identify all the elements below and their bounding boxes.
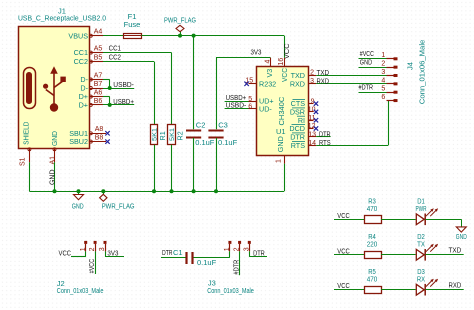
svg-text:RTS: RTS bbox=[291, 141, 305, 150]
svg-text:V3: V3 bbox=[265, 69, 274, 78]
wire A1 GND down to rail bbox=[54, 162, 56, 191]
capacitor C2 bbox=[186, 120, 215, 147]
svg-text:USBD+: USBD+ bbox=[113, 97, 134, 106]
wire fuse to U1 VCC pin16 bbox=[142, 36, 285, 58]
connector J4 value Conn_01x06_Male bbox=[418, 40, 427, 105]
label USBD+ bbox=[113, 97, 134, 106]
U1 pin 16 VCC bbox=[278, 58, 289, 82]
wire TXD to J4 pin 3 bbox=[316, 75, 386, 77]
svg-text:J4: J4 bbox=[406, 62, 415, 70]
J2 pin 1 bbox=[80, 241, 87, 252]
svg-text:Conn_01x03_Male: Conn_01x03_Male bbox=[57, 286, 104, 295]
J1 pin B8 SBU2 bbox=[69, 135, 106, 147]
svg-text:B7: B7 bbox=[94, 81, 103, 88]
wire D1 to GND symbol bbox=[426, 219, 462, 221]
label VCC row R5 bbox=[337, 281, 350, 290]
wire #VCC to J4 pin 1 bbox=[359, 58, 387, 60]
svg-text:5: 5 bbox=[248, 96, 252, 103]
junction C3 on rail bbox=[214, 189, 218, 193]
wire RTS to J4 pin 6 bbox=[316, 101, 388, 146]
wire 3V3 net to C3 and U1 V3 pin4 bbox=[216, 58, 271, 130]
connector J2 reference bbox=[57, 279, 65, 288]
USB icon inside J1 bbox=[24, 66, 66, 111]
J1 pin B5 CC2 bbox=[74, 55, 103, 67]
junction at C2 branch bbox=[192, 34, 196, 38]
label USBD- bbox=[113, 80, 134, 89]
wire #DTR to J4 pin 5 bbox=[359, 92, 387, 94]
fuse F1 value bbox=[124, 20, 141, 29]
svg-text:A8: A8 bbox=[95, 126, 104, 133]
J4 pin 6 bbox=[381, 94, 397, 102]
svg-text:0.1uF: 0.1uF bbox=[197, 258, 217, 267]
IC U1 body bbox=[257, 67, 309, 156]
U1 pin 13 DTR bbox=[290, 131, 316, 141]
resistor R2 bbox=[168, 125, 185, 145]
svg-text:B8: B8 bbox=[95, 135, 104, 142]
svg-text:R1: R1 bbox=[158, 131, 167, 140]
svg-text:A6: A6 bbox=[94, 90, 103, 97]
svg-text:CC2: CC2 bbox=[109, 53, 121, 62]
resistor R1 bbox=[151, 125, 168, 145]
svg-text:3: 3 bbox=[243, 247, 250, 251]
svg-text:16: 16 bbox=[278, 58, 285, 66]
svg-text:RX: RX bbox=[417, 275, 425, 284]
connector J1 body bbox=[19, 27, 90, 149]
label VCC on pin16 wire bbox=[282, 43, 291, 59]
no-connect on pin 10 bbox=[314, 110, 318, 114]
svg-text:5: 5 bbox=[381, 86, 385, 93]
wire VCC to R4 bbox=[334, 254, 364, 256]
svg-text:CC1: CC1 bbox=[109, 44, 121, 53]
no-connect on SBU1 bbox=[105, 131, 109, 135]
svg-text:C3: C3 bbox=[218, 120, 228, 129]
svg-text:RXD: RXD bbox=[449, 281, 462, 290]
wire J3 pin1 to C1 bbox=[194, 251, 230, 257]
wire USBD- to pin 6 bbox=[225, 108, 249, 110]
no-connect on SBU2 bbox=[105, 139, 109, 143]
svg-text:DTR: DTR bbox=[253, 248, 265, 257]
ground symbol at D1 bbox=[456, 219, 467, 241]
wire RXD to J4 pin 4 bbox=[316, 83, 386, 85]
svg-text:UD-: UD- bbox=[259, 104, 272, 113]
svg-text:14: 14 bbox=[308, 140, 316, 147]
svg-text:2: 2 bbox=[234, 247, 241, 251]
svg-text:RXD: RXD bbox=[317, 76, 330, 85]
label 3V3 at J2 bbox=[107, 248, 118, 257]
svg-text:1: 1 bbox=[224, 247, 231, 251]
wire VBUS A4 to fuse bbox=[103, 35, 123, 37]
svg-text:3: 3 bbox=[99, 247, 106, 251]
svg-text:CC2: CC2 bbox=[74, 57, 88, 66]
ground symbol GND bbox=[72, 191, 84, 210]
svg-text:Conn_01x03_Male: Conn_01x03_Male bbox=[207, 286, 254, 295]
wire GND rail bbox=[29, 191, 284, 193]
svg-text:2: 2 bbox=[89, 247, 96, 251]
svg-text:470: 470 bbox=[367, 204, 378, 213]
svg-text:A5: A5 bbox=[94, 46, 103, 53]
connector J1 value USB_C_Receptacle_USB2.0 bbox=[18, 14, 106, 23]
wire VCC to R5 bbox=[334, 289, 364, 291]
wire R4 to D2 bbox=[381, 254, 416, 256]
U1 pin 6 UD- bbox=[248, 103, 272, 113]
svg-text:220: 220 bbox=[367, 240, 378, 249]
J1 pin B7 D- bbox=[80, 81, 103, 93]
svg-text:A1: A1 bbox=[49, 156, 56, 165]
no-connect on pin 9 bbox=[314, 101, 318, 105]
LED D1 bbox=[416, 197, 439, 226]
svg-text:RTS: RTS bbox=[319, 138, 331, 147]
svg-text:VCC: VCC bbox=[337, 211, 350, 220]
wire C3 to GND rail bbox=[216, 138, 218, 191]
svg-text:A7: A7 bbox=[94, 72, 103, 79]
wire D- pair join bbox=[103, 80, 134, 89]
J1 pin S1 SHIELD bbox=[19, 122, 31, 166]
label USBD- at U1 bbox=[226, 100, 247, 109]
svg-text:USBD-: USBD- bbox=[113, 80, 134, 89]
U1 pin 4 V3 bbox=[264, 58, 274, 78]
svg-text:3V3: 3V3 bbox=[251, 48, 262, 57]
svg-text:470: 470 bbox=[367, 275, 378, 284]
svg-text:3V3: 3V3 bbox=[107, 248, 118, 257]
fuse F1 body bbox=[123, 34, 142, 39]
J3 pin 2 bbox=[234, 241, 241, 251]
svg-text:SHIELD: SHIELD bbox=[22, 122, 31, 145]
resistor R3 bbox=[365, 197, 382, 224]
U1 pin 14 RTS bbox=[291, 140, 316, 150]
J1 pin A5 CC1 bbox=[74, 46, 103, 58]
label 3V3 bbox=[251, 48, 262, 57]
U1 pin 9 CTS bbox=[291, 98, 315, 108]
label #VCC bbox=[360, 49, 375, 58]
wire R5 to D3 bbox=[381, 289, 416, 291]
wire D2 to TXD label bbox=[426, 254, 464, 256]
svg-text:B5: B5 bbox=[94, 55, 103, 62]
svg-text:GND: GND bbox=[276, 136, 285, 152]
junction A1 on rail bbox=[53, 189, 57, 193]
label USBD+ at U1 bbox=[226, 93, 247, 102]
junction R2 on rail bbox=[170, 189, 174, 193]
svg-text:B6: B6 bbox=[94, 98, 103, 105]
U1 pin 3 RXD bbox=[290, 78, 316, 89]
svg-text:0.1uF: 0.1uF bbox=[218, 138, 238, 147]
label TXD right bbox=[449, 246, 462, 255]
wire J3 pin2 down bbox=[239, 251, 241, 275]
J4 pin 1 bbox=[381, 52, 397, 60]
svg-text:DTR: DTR bbox=[162, 248, 173, 257]
svg-text:Conn_01x06_Male: Conn_01x06_Male bbox=[418, 40, 427, 105]
U1 pin 2 TXD bbox=[291, 70, 317, 81]
wire SHIELD to GND rail bbox=[29, 162, 31, 191]
connector J3 value Conn_01x03_Male bbox=[207, 286, 254, 295]
wire VCC to R3 bbox=[334, 219, 364, 221]
svg-text:USBD-: USBD- bbox=[226, 100, 247, 109]
svg-text:GND: GND bbox=[50, 131, 59, 146]
U1 pin 12 DCD bbox=[289, 123, 315, 133]
power flag PWR_FLAG top bbox=[164, 15, 196, 35]
junction C2 on rail bbox=[192, 189, 196, 193]
wire C1 left to DTR label bbox=[161, 257, 186, 259]
svg-text:Fuse: Fuse bbox=[124, 20, 141, 29]
svg-text:2: 2 bbox=[310, 70, 314, 77]
J4 pin 5 bbox=[381, 86, 397, 94]
J1 pin A6 D+ bbox=[79, 90, 103, 102]
J4 pin 4 bbox=[381, 77, 397, 85]
svg-text:A4: A4 bbox=[94, 29, 103, 36]
wire USBD+ to pin 5 bbox=[225, 101, 249, 103]
svg-text:3: 3 bbox=[310, 78, 314, 85]
junction GND symbol bbox=[77, 189, 81, 193]
connector J4 reference bbox=[406, 62, 415, 70]
U1 pin 15 R232 bbox=[245, 78, 276, 89]
LED D3 bbox=[416, 267, 438, 296]
label DTR at J3 pin3 bbox=[253, 248, 265, 257]
svg-text:GND: GND bbox=[360, 58, 373, 67]
svg-text:USB_C_Receptacle_USB2.0: USB_C_Receptacle_USB2.0 bbox=[18, 14, 106, 23]
J3 pin 1 bbox=[224, 241, 231, 251]
label #VCC at J2 bbox=[87, 258, 96, 273]
capacitor C3 bbox=[208, 120, 237, 147]
no-connect on pin 11 bbox=[314, 118, 318, 122]
svg-text:1: 1 bbox=[276, 159, 283, 163]
wire DTR stub bbox=[316, 136, 330, 138]
svg-text:VCC: VCC bbox=[337, 281, 350, 290]
label GND on A1 wire bbox=[48, 169, 57, 185]
label CC1 bbox=[109, 44, 121, 53]
U1 pin 10 DSR bbox=[290, 107, 316, 117]
svg-text:TX: TX bbox=[417, 240, 425, 249]
svg-text:TXD: TXD bbox=[449, 246, 462, 255]
label VCC row R4 bbox=[337, 246, 350, 255]
label #DTR at J3 bbox=[232, 259, 241, 274]
J3 pin 3 bbox=[243, 241, 250, 251]
J2 pin 2 bbox=[89, 241, 96, 252]
svg-text:VCC: VCC bbox=[282, 43, 291, 59]
wire U1 GND to rail bbox=[284, 164, 286, 192]
svg-text:#DTR: #DTR bbox=[359, 83, 374, 92]
svg-text:PWR_FLAG: PWR_FLAG bbox=[164, 15, 196, 24]
svg-text:GND: GND bbox=[48, 169, 57, 185]
wire R2 to GND rail bbox=[171, 145, 173, 192]
junction D+ B6 bbox=[108, 103, 112, 107]
junction D- B7 bbox=[108, 86, 112, 90]
no-connect on pin 12 bbox=[314, 126, 318, 130]
svg-text:R232: R232 bbox=[259, 79, 276, 88]
junction at PWR_FLAG bbox=[178, 34, 182, 38]
junction PWR_FLAG bottom bbox=[101, 189, 105, 193]
svg-text:6: 6 bbox=[381, 94, 385, 101]
svg-text:3: 3 bbox=[381, 69, 385, 76]
svg-text:13: 13 bbox=[308, 131, 316, 138]
fuse F1 reference bbox=[128, 12, 137, 21]
label VCC row R3 bbox=[337, 211, 350, 220]
svg-text:SBU2: SBU2 bbox=[69, 137, 88, 146]
IC U1 value CH340C bbox=[277, 96, 286, 125]
svg-text:#DTR: #DTR bbox=[232, 259, 241, 274]
wire J3 pin3 to DTR label bbox=[249, 251, 267, 256]
svg-text:1: 1 bbox=[80, 247, 87, 251]
wire R3 to D1 bbox=[381, 219, 416, 221]
wire J2 pin3 to 3V3 label bbox=[105, 251, 124, 256]
wire J2 pin2 down bbox=[95, 251, 97, 274]
svg-text:PWR: PWR bbox=[416, 204, 427, 213]
junction R1 on rail bbox=[152, 189, 156, 193]
svg-text:C1: C1 bbox=[173, 248, 183, 257]
svg-text:RXD: RXD bbox=[290, 79, 305, 88]
svg-text:GND: GND bbox=[72, 202, 84, 211]
wire CC1 to R2 top bbox=[103, 53, 172, 125]
wire J2 pin1 to VCC label bbox=[71, 251, 86, 256]
svg-text:R2: R2 bbox=[176, 131, 185, 140]
LED D2 bbox=[416, 232, 438, 261]
svg-text:6: 6 bbox=[248, 103, 252, 110]
label TXD at U1 bbox=[317, 68, 330, 77]
svg-text:VCC: VCC bbox=[280, 68, 289, 82]
label RXD right bbox=[449, 281, 462, 290]
svg-text:S1: S1 bbox=[19, 157, 26, 166]
connector J3 reference bbox=[208, 279, 216, 288]
svg-text:PWR_FLAG: PWR_FLAG bbox=[102, 202, 135, 211]
wire VCC rail down to C2 bbox=[193, 36, 195, 130]
svg-text:CH340C: CH340C bbox=[277, 96, 286, 125]
wire C2 to GND rail bbox=[193, 138, 195, 191]
J1 pin A8 SBU1 bbox=[69, 126, 106, 138]
resistor R4 bbox=[365, 232, 382, 259]
U1 pin 1 GND bbox=[276, 136, 286, 163]
label RTS at U1 bbox=[319, 138, 331, 147]
svg-text:4: 4 bbox=[264, 60, 271, 64]
IC U1 reference bbox=[276, 127, 286, 136]
capacitor C1 bbox=[173, 248, 217, 267]
svg-text:D+: D+ bbox=[79, 101, 88, 110]
wire D3 to RXD label bbox=[426, 289, 464, 291]
no-connect on pin 15 bbox=[244, 82, 248, 86]
J4 pin 3 bbox=[381, 69, 397, 77]
power flag PWR_FLAG bottom bbox=[100, 191, 135, 210]
connector J2 value Conn_01x03_Male bbox=[57, 286, 104, 295]
svg-text:0.1uF: 0.1uF bbox=[195, 138, 215, 147]
label DTR at U1 bbox=[319, 129, 331, 138]
U1 pin 5 UD+ bbox=[248, 96, 273, 106]
label CC2 bbox=[109, 53, 121, 62]
label GND at J4 bbox=[360, 58, 373, 67]
U1 pin 11 RI bbox=[297, 115, 316, 125]
svg-text:VBUS: VBUS bbox=[68, 31, 88, 40]
svg-text:CC1: CC1 bbox=[74, 48, 88, 57]
wire R1 to GND rail bbox=[154, 145, 156, 192]
resistor R5 bbox=[365, 267, 382, 294]
J1 pin A1 GND bbox=[49, 131, 59, 165]
wire GND to J4 pin 2 bbox=[359, 67, 387, 69]
svg-text:C2: C2 bbox=[196, 120, 206, 129]
wire CC2 to R1 top bbox=[103, 62, 155, 125]
label RXD at U1 bbox=[317, 76, 330, 85]
svg-text:#VCC: #VCC bbox=[87, 258, 96, 273]
wire D+ pair join bbox=[103, 97, 134, 105]
J1 pin A7 D- bbox=[80, 72, 103, 84]
svg-text:4: 4 bbox=[381, 77, 385, 84]
svg-text:GND: GND bbox=[456, 232, 467, 241]
svg-text:U1: U1 bbox=[276, 127, 286, 136]
label #DTR bbox=[359, 83, 374, 92]
J1 pin A4 VBUS bbox=[68, 29, 103, 41]
label DTR at C1 bbox=[162, 248, 173, 257]
J2 pin 3 bbox=[99, 241, 106, 252]
J4 pin 2 bbox=[381, 61, 397, 69]
J1 pin B6 D+ bbox=[79, 98, 103, 110]
svg-text:VCC: VCC bbox=[59, 248, 72, 257]
svg-text:2: 2 bbox=[381, 61, 385, 68]
connector J1 reference bbox=[58, 7, 66, 16]
label VCC at J2 bbox=[59, 248, 72, 257]
